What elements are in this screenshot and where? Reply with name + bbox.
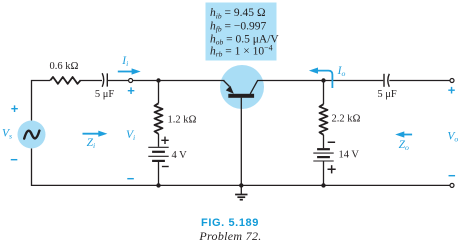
svg-text:FIG. 5.189: FIG. 5.189 xyxy=(201,217,259,229)
svg-text:1.2 kΩ: 1.2 kΩ xyxy=(168,115,197,126)
svg-text:Ii: Ii xyxy=(121,55,128,68)
svg-text:Vi: Vi xyxy=(126,129,135,142)
svg-text:Vo: Vo xyxy=(447,130,458,143)
svg-text:+: + xyxy=(11,101,19,116)
svg-text:Vs: Vs xyxy=(2,128,12,141)
svg-text:2.2 kΩ: 2.2 kΩ xyxy=(332,114,361,125)
svg-text:Zi: Zi xyxy=(87,137,96,150)
svg-text:Zo: Zo xyxy=(399,139,409,152)
svg-text:+: + xyxy=(448,83,456,98)
svg-text:5 μF: 5 μF xyxy=(95,89,115,100)
svg-text:−: − xyxy=(448,168,456,183)
svg-text:14 V: 14 V xyxy=(339,150,360,161)
svg-text:+: + xyxy=(127,83,135,98)
svg-text:−: − xyxy=(10,152,18,167)
svg-text:Io: Io xyxy=(337,65,346,78)
svg-text:−: − xyxy=(127,171,135,186)
svg-text:0.6 kΩ: 0.6 kΩ xyxy=(49,61,78,72)
svg-text:4 V: 4 V xyxy=(172,150,188,161)
svg-text:Problem 72.: Problem 72. xyxy=(198,229,261,243)
svg-text:5 μF: 5 μF xyxy=(377,89,397,100)
